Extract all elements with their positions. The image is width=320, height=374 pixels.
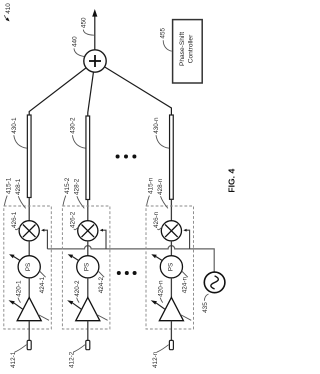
wire from summing node to transmission line 430-1 <box>29 61 95 117</box>
transmission line 430-2 <box>86 116 90 200</box>
leader arrow for 410 <box>4 15 7 19</box>
svg-text:420-2: 420-2 <box>74 280 81 297</box>
antenna element 412-1 <box>27 340 31 349</box>
variable arrow on phase shifter <box>14 257 21 261</box>
svg-text:424-n: 424-n <box>181 277 188 294</box>
local oscillator 435 <box>204 272 225 293</box>
svg-text:430-1: 430-1 <box>11 117 18 134</box>
wire 428-2 from line 430-2 to mixer 426-2 <box>87 200 89 222</box>
dashed RF module box 415-2 <box>62 206 110 329</box>
svg-text:PS: PS <box>84 263 91 271</box>
arrowhead LO into mixer 426-1 <box>41 229 44 232</box>
leader at amplifier output <box>180 315 191 321</box>
svg-text:415-1: 415-1 <box>5 177 12 194</box>
antenna element 412-n <box>169 340 173 349</box>
svg-text:Controller: Controller <box>188 34 195 63</box>
svg-text:415-n: 415-n <box>148 177 155 194</box>
svg-text:426-1: 426-1 <box>11 211 18 228</box>
wire mixer to phase shifter <box>87 241 89 256</box>
svg-text:428-2: 428-2 <box>74 178 81 195</box>
leader at amplifier output <box>38 315 49 321</box>
variable arrow on amplifier <box>14 303 23 310</box>
antenna element 412-2 <box>86 340 90 349</box>
dashed RF module box 415-1 <box>4 206 52 329</box>
svg-text:415-2: 415-2 <box>64 177 71 194</box>
wire mixer to phase shifter <box>28 241 30 256</box>
svg-text:FIG. 4: FIG. 4 <box>227 169 237 193</box>
svg-text:430-2: 430-2 <box>69 117 76 134</box>
LO riser wire to mixer 426-2 <box>103 230 106 249</box>
transmission line 430-n <box>170 115 174 199</box>
phase shifter PS <box>77 256 99 278</box>
wire output 450 from summing node <box>94 13 96 50</box>
variable arrow on phase shifter <box>156 257 163 261</box>
wire 428-n from line 430-n to mixer 426-n <box>170 199 172 221</box>
wire from summing node to transmission line 430-n <box>95 61 171 117</box>
svg-text:450: 450 <box>80 17 87 28</box>
svg-text:455: 455 <box>159 27 166 38</box>
LO riser wire to mixer 426-n <box>186 230 189 249</box>
svg-text:410: 410 <box>5 3 12 14</box>
wire PS to amplifier 420-2 <box>87 278 89 298</box>
transmission line 430-1 <box>27 115 31 198</box>
svg-text:420-1: 420-1 <box>16 280 23 297</box>
amplifier 420-2 <box>76 297 100 320</box>
wire 428-1 from line 430-1 to mixer 426-1 <box>28 198 30 222</box>
svg-text:424-1: 424-1 <box>39 277 46 294</box>
LO bus wire from oscillator 435 <box>47 246 214 273</box>
wire PS to amplifier 420-1 <box>28 278 30 298</box>
wire amplifier to antenna 412-n <box>170 321 172 341</box>
svg-text:428-n: 428-n <box>157 178 164 195</box>
svg-text:424-2: 424-2 <box>98 277 105 294</box>
wire from summing node to transmission line 430-2 <box>88 61 95 118</box>
mixer 426-2 <box>78 221 98 241</box>
arrowhead LO into mixer 426-2 <box>100 229 103 232</box>
svg-text:420-n: 420-n <box>158 280 165 297</box>
svg-text:412-n: 412-n <box>152 351 159 368</box>
svg-text:428-1: 428-1 <box>15 178 22 195</box>
arrowhead LO into mixer 426-n <box>183 229 186 232</box>
ellipsis dots between channels 2 and n <box>117 271 121 275</box>
phase-shift controller 455 <box>173 20 203 83</box>
amplifier 420-n <box>159 297 183 320</box>
leader at amplifier output <box>97 315 108 321</box>
wire amplifier to antenna 412-2 <box>87 321 89 341</box>
mixer 426-n <box>161 221 181 241</box>
summing node 440 (circle with plus) <box>84 50 106 72</box>
LO riser wire to mixer 426-1 <box>44 230 47 249</box>
svg-text:PS: PS <box>25 263 32 271</box>
phase shifter PS <box>160 256 182 278</box>
svg-text:Phase-Shift: Phase-Shift <box>179 32 186 66</box>
svg-text:435: 435 <box>202 302 209 313</box>
variable arrow on phase shifter <box>72 257 79 261</box>
svg-text:412-2: 412-2 <box>69 351 76 368</box>
wire mixer to phase shifter <box>170 241 172 256</box>
wire PS to amplifier 420-n <box>170 278 172 298</box>
wire amplifier to antenna 412-1 <box>28 321 30 341</box>
amplifier 420-1 <box>17 297 41 320</box>
svg-text:426-n: 426-n <box>153 211 160 228</box>
svg-text:440: 440 <box>71 36 78 47</box>
svg-text:412-1: 412-1 <box>10 351 17 368</box>
phase shifter PS <box>18 256 40 278</box>
ellipsis dots between lines 430-2 and 430-n <box>116 155 120 159</box>
svg-text:430-n: 430-n <box>153 117 160 134</box>
variable arrow on amplifier <box>156 303 165 310</box>
svg-text:PS: PS <box>167 263 174 271</box>
arrowhead output 450 <box>92 9 97 17</box>
variable arrow on amplifier <box>73 303 82 310</box>
dashed RF module box 415-n <box>146 206 194 329</box>
svg-text:426-2: 426-2 <box>69 211 76 228</box>
mixer 426-1 <box>19 221 39 241</box>
